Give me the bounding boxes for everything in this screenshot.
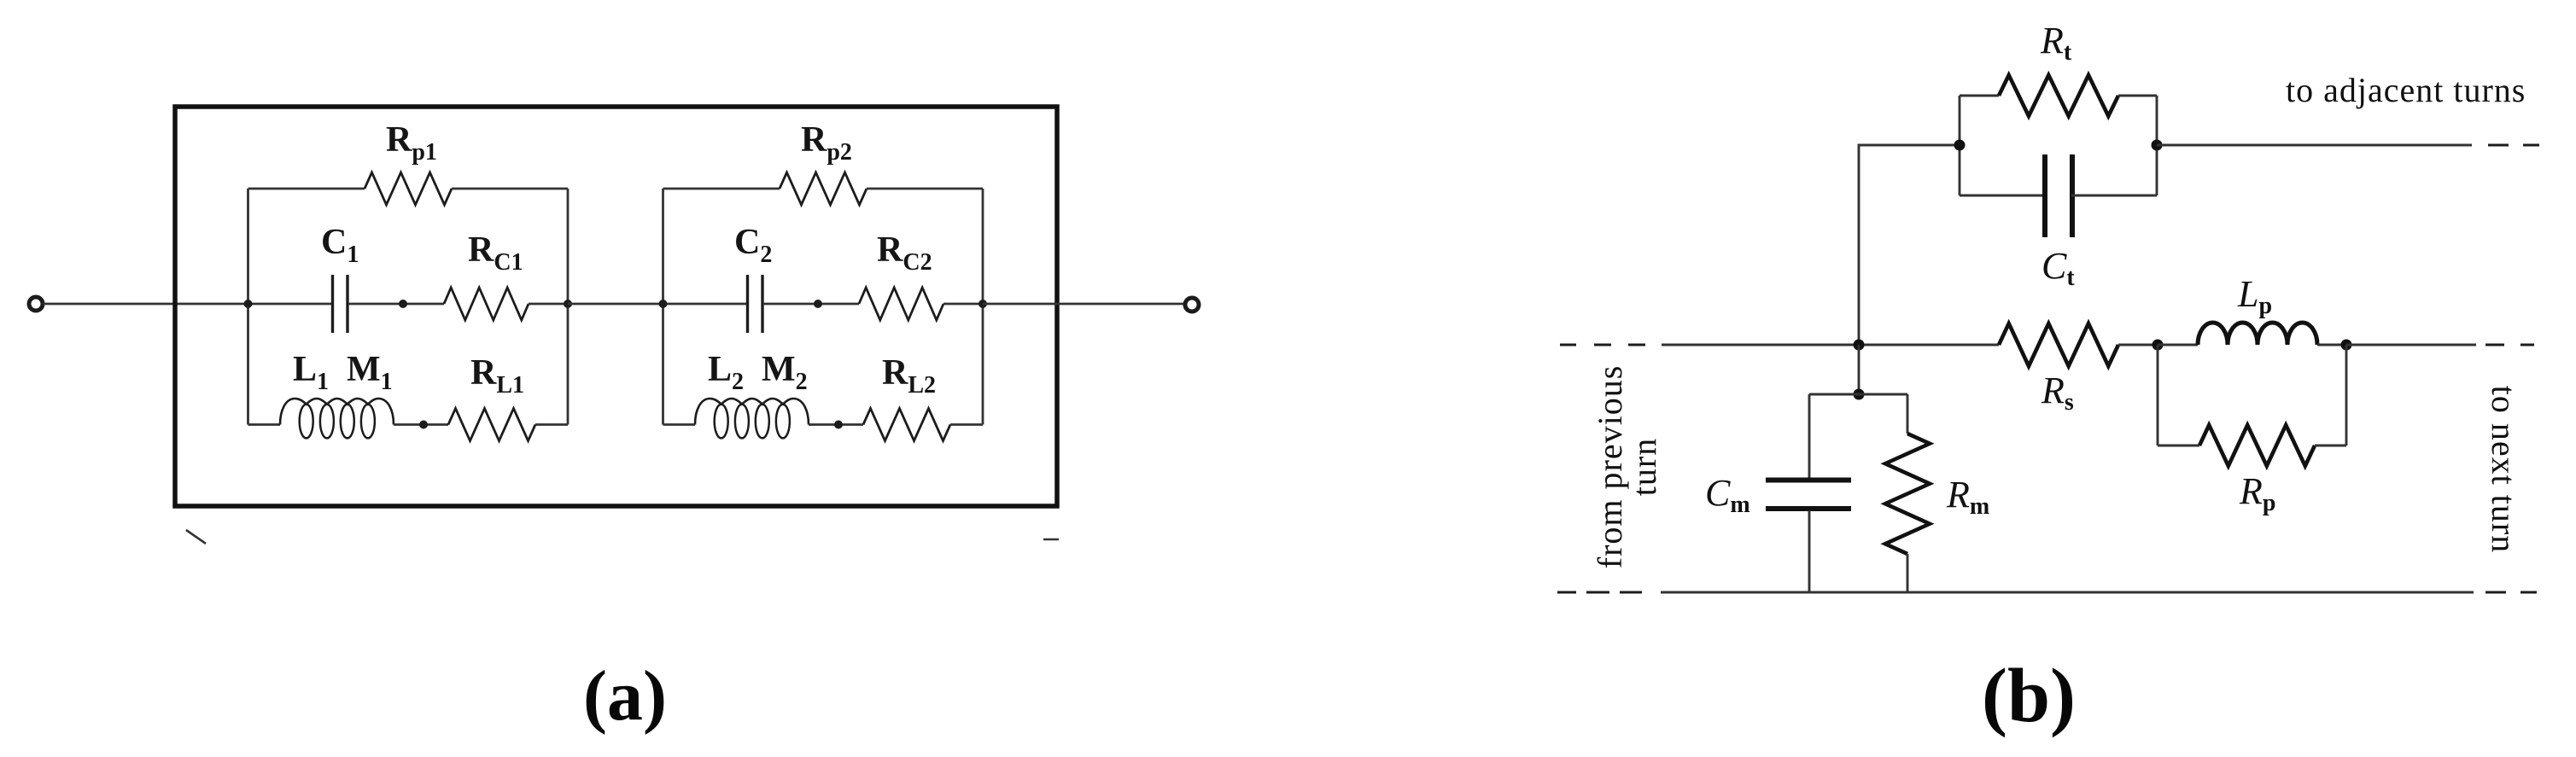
wire sub top: [1809, 393, 1907, 396]
resistor Rp1: [365, 172, 452, 205]
node D: [834, 421, 843, 429]
wire mid to capacitor: [663, 303, 748, 306]
wire Rp bottom right: [2315, 445, 2346, 447]
wire RL1 to right edge: [535, 423, 568, 426]
wire top branch left: [663, 188, 780, 190]
svg-text:RL2: RL2: [882, 353, 936, 399]
wire main line left: [1662, 344, 1999, 346]
svg-text:L2 M2: L2 M2: [708, 350, 808, 395]
svg-text:to adjacent turns: to adjacent turns: [2286, 71, 2526, 109]
resistor Rp: [2199, 425, 2315, 466]
wire coil to RL1: [394, 423, 448, 426]
wire adjacent dashed: [2488, 144, 2539, 147]
resistor Rp2: [780, 172, 867, 205]
node B: [419, 421, 428, 429]
wire left lead: [43, 303, 248, 306]
wire riser: [1859, 145, 1960, 345]
wire bottom line: [1661, 591, 2474, 594]
terminal left port: [29, 297, 43, 311]
wire cell2 left edge: [662, 189, 664, 425]
wire main line right: [2346, 344, 2476, 346]
svg-text:Ct: Ct: [2042, 245, 2075, 291]
wire between cells: [568, 303, 663, 306]
wire RC1 to right edge: [529, 303, 568, 306]
svg-text:RL1: RL1: [470, 353, 524, 399]
wire Rp bottom left: [2158, 445, 2199, 447]
wire bottom branch left: [248, 423, 281, 426]
node I: [2152, 140, 2163, 151]
capacitor C1: [333, 275, 348, 333]
node F: [2341, 340, 2352, 351]
resistor Rm: [1885, 434, 1930, 554]
wire right lead: [983, 303, 1185, 306]
wire main line dashed right: [2485, 344, 2534, 346]
wire to adjacent turns: [2157, 144, 2472, 147]
svg-text:Rp2: Rp2: [801, 120, 852, 166]
wire Rp right edge: [2345, 345, 2348, 445]
wire coil to RL2: [809, 423, 863, 426]
wire Cm upper: [1808, 394, 1811, 478]
svg-text:Rp: Rp: [2239, 470, 2275, 516]
node cell1 right: [564, 300, 572, 308]
inductor L2 M2: [695, 399, 809, 438]
wire bottom branch left: [663, 423, 696, 426]
capacitor Cm: [1766, 480, 1851, 510]
svg-text:to next turn: to next turn: [2485, 386, 2523, 553]
outer box: [175, 107, 1057, 506]
svg-text:Lp: Lp: [2237, 273, 2272, 319]
capacitor Ct: [2045, 154, 2072, 237]
node A: [399, 300, 407, 308]
wire top branch right: [452, 188, 568, 190]
wire Ct bottom left: [1960, 195, 2046, 197]
node cell2 right: [978, 300, 987, 308]
label from previous turn: [1591, 365, 1663, 569]
svg-text:C1: C1: [321, 223, 359, 268]
wire top branch left: [248, 188, 365, 190]
svg-text:L1 M1: L1 M1: [293, 350, 393, 395]
resistor RC1: [444, 288, 529, 320]
wire Cm lower: [1808, 510, 1811, 592]
wire capacitor to RC2: [763, 303, 859, 306]
terminal right port: [1185, 298, 1199, 312]
resistor RL1: [448, 409, 535, 441]
wire Rs to node: [2118, 344, 2158, 346]
svg-text:Rm: Rm: [1946, 474, 1989, 520]
svg-text:C2: C2: [734, 223, 772, 268]
svg-text:RC1: RC1: [468, 230, 523, 276]
wire node to Lp: [2158, 344, 2198, 346]
wire Rt block left edge: [1959, 96, 1961, 195]
wire sub riser: [1858, 345, 1860, 394]
wire cell2 right edge: [982, 189, 984, 425]
node J: [1854, 389, 1865, 400]
wire cell1 left edge: [247, 189, 249, 425]
svg-text:turn: turn: [1625, 438, 1663, 496]
wire RL2 to right edge: [950, 423, 983, 426]
node E: [2153, 340, 2164, 351]
wire Lp to node: [2317, 344, 2346, 346]
wire Rt top right: [2118, 95, 2157, 97]
node G: [1854, 340, 1865, 351]
node cell2 left: [659, 300, 668, 308]
node H: [1954, 140, 1966, 151]
label to next turn: [2485, 386, 2523, 553]
wire bottom dashed left: [1557, 591, 1642, 594]
wire Rp left edge: [2157, 345, 2159, 445]
svg-text:(a): (a): [583, 656, 667, 736]
inductor Lp: [2198, 323, 2317, 345]
svg-text:Rt: Rt: [2040, 20, 2072, 66]
wire mid to capacitor: [248, 303, 333, 306]
resistor Rt: [1999, 75, 2118, 116]
wire main line dashed left: [1560, 344, 1645, 346]
inductor L1 M1: [280, 399, 394, 438]
wire Rm lower: [1907, 554, 1909, 592]
resistor Rs: [1999, 323, 2118, 366]
wire Rm upper: [1907, 394, 1909, 434]
wire Rt top left: [1960, 95, 1999, 97]
wire capacitor to RC1: [348, 303, 444, 306]
wire top branch right: [867, 188, 983, 190]
resistor RC2: [859, 288, 943, 320]
wire bottom dashed right: [2485, 591, 2537, 594]
resistor RL2: [863, 409, 950, 441]
svg-text:from previous: from previous: [1591, 365, 1629, 569]
wire cell1 right edge: [567, 189, 570, 425]
tick mark left: [186, 530, 206, 544]
node cell1 left: [244, 300, 253, 308]
svg-text:Rs: Rs: [2041, 370, 2074, 416]
capacitor C2: [748, 275, 763, 333]
svg-text:(b): (b): [1982, 654, 2076, 738]
node C: [814, 300, 822, 308]
wire Ct bottom right: [2071, 195, 2157, 197]
svg-text:RC2: RC2: [877, 230, 932, 276]
wire Rt block right edge: [2156, 96, 2158, 195]
wire RC2 to right edge: [943, 303, 983, 306]
tick mark right: [1043, 539, 1059, 541]
svg-text:Cm: Cm: [1705, 472, 1750, 518]
svg-text:Rp1: Rp1: [386, 120, 437, 166]
